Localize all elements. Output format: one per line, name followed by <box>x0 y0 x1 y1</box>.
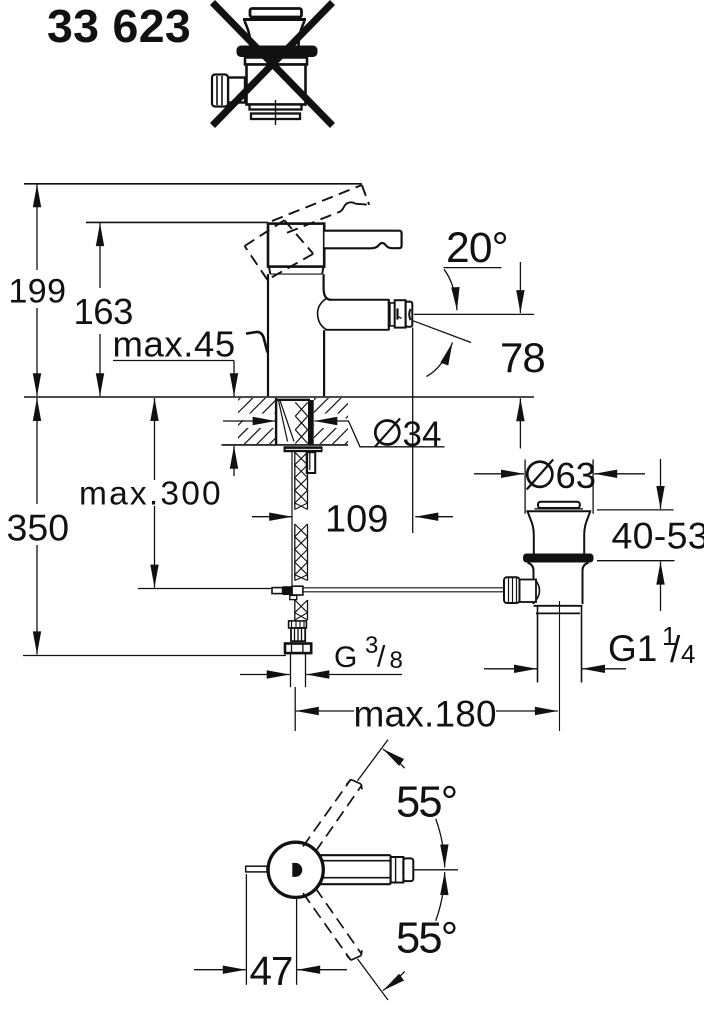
svg-text:max.45: max.45 <box>113 324 236 365</box>
svg-text:/: / <box>670 629 681 670</box>
dimension max.180 <box>294 687 296 731</box>
55deg axis extension lines <box>358 740 389 781</box>
svg-text:78: 78 <box>500 334 545 381</box>
pop-up drain valve <box>504 502 594 731</box>
dimension 109 <box>252 516 292 518</box>
svg-text:max.300: max.300 <box>79 476 223 513</box>
faucet head block <box>268 224 324 267</box>
svg-text:55°: 55° <box>396 779 456 827</box>
163 reference line (head top) <box>86 221 268 223</box>
svg-text:max.180: max.180 <box>354 694 497 735</box>
svg-text:20°: 20° <box>446 225 508 272</box>
top view: body circle <box>268 842 323 897</box>
dimension G3/8 <box>240 674 290 676</box>
white bands for arrows through hatch <box>243 414 276 428</box>
spout branch <box>330 299 389 301</box>
threaded shank in deck hole <box>275 398 314 445</box>
svg-text:34: 34 <box>403 415 442 454</box>
top reference line (handle max height) <box>24 183 362 185</box>
temperature-limiter hook on body left <box>246 332 268 353</box>
dimension 163 <box>99 223 101 288</box>
dimension 199 <box>36 184 38 270</box>
mounting nut below deck <box>284 446 323 452</box>
svg-text:G: G <box>334 641 357 674</box>
top view: solid lever <box>320 855 414 884</box>
dashed raised handle outline <box>245 185 370 280</box>
horizontal drain actuating rod <box>138 588 272 590</box>
dashed rotated head square <box>245 220 285 246</box>
aerator / mousseur <box>389 299 413 330</box>
svg-text:4: 4 <box>681 639 695 669</box>
dimension 40-53 <box>597 509 674 511</box>
dimension 47 <box>245 874 247 985</box>
dimension Ø34 <box>223 420 276 422</box>
dimension 78 <box>519 262 521 313</box>
svg-text:33 623: 33 623 <box>47 0 191 52</box>
dimension max.300 <box>154 398 156 480</box>
dimension G1 1/4 <box>484 668 537 670</box>
X cross over icon <box>213 3 333 126</box>
faucet body column <box>267 274 269 396</box>
top view: rear rod <box>246 866 267 872</box>
aerator centerline (78 reference) <box>414 313 534 315</box>
svg-text:47: 47 <box>250 948 293 994</box>
top view: cartridge D mark <box>292 863 302 877</box>
rod tee fitting <box>272 588 283 594</box>
svg-text:199: 199 <box>9 273 67 311</box>
svg-text:8: 8 <box>390 647 403 674</box>
faucet neck joint <box>269 267 323 275</box>
dimension Ø63 <box>524 459 526 513</box>
solid lever handle <box>325 231 402 249</box>
20deg tilted axis leader <box>413 321 471 343</box>
dashed handle rotated down 55deg <box>303 888 362 960</box>
svg-text:/: / <box>377 641 386 674</box>
svg-text:40-53: 40-53 <box>612 515 704 557</box>
dashed handle rotated up 55deg <box>303 779 362 851</box>
350 bottom reference line <box>23 655 286 657</box>
drain knob + stem <box>520 580 537 603</box>
svg-text:63: 63 <box>556 455 597 496</box>
dimension 350 <box>36 398 38 504</box>
mounting stud <box>307 452 316 473</box>
aerator extension line <box>412 328 414 534</box>
flexible supply hose <box>295 452 308 620</box>
deck bottom line <box>222 444 349 446</box>
svg-text:55°: 55° <box>396 915 456 963</box>
55deg dimension arcs <box>383 749 405 768</box>
crossed-out pop-up waste icon <box>212 9 318 126</box>
svg-text:350: 350 <box>7 507 70 549</box>
G3/8 hose end fitting <box>285 621 311 687</box>
top view centerline <box>413 869 458 871</box>
svg-text:109: 109 <box>325 499 388 541</box>
svg-text:G1: G1 <box>608 628 657 669</box>
deck / mounting surface top line <box>24 396 534 398</box>
pull rod (vertical) <box>291 452 293 586</box>
